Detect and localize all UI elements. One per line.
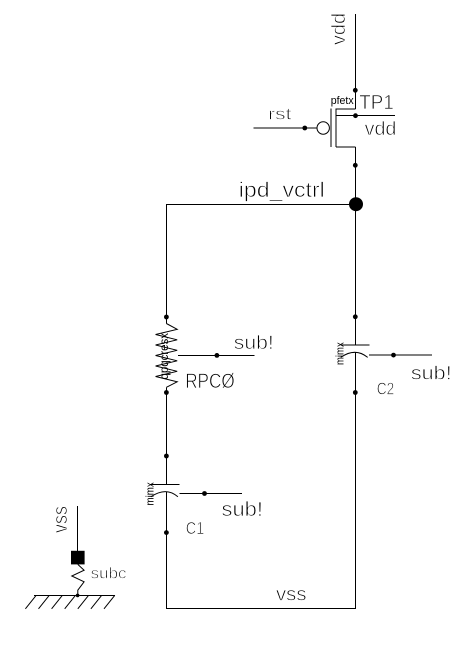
wire right rail lower <box>355 352 357 609</box>
svg-text:C1: C1 <box>186 518 205 538</box>
svg-text:mimx: mimx <box>335 342 347 365</box>
capacitor C1 <box>145 454 205 538</box>
svg-text:sub!: sub! <box>222 499 264 521</box>
svg-text:subc: subc <box>91 565 127 582</box>
wire rst (gate) <box>254 127 317 129</box>
substrate contact subc <box>71 551 127 597</box>
wire vss bottom rail <box>166 608 356 610</box>
ground (hatched) <box>25 595 114 609</box>
wire left rail lower <box>166 492 168 609</box>
transistor TP1 <box>302 88 393 168</box>
capacitor C2 <box>335 314 395 398</box>
net sub! label (resistor) <box>234 332 274 354</box>
svg-text:mimx: mimx <box>145 482 157 506</box>
net vss label (bottom) <box>276 583 307 605</box>
wire C2 tap sub! <box>369 354 432 356</box>
svg-text:TP1: TP1 <box>359 92 394 114</box>
svg-text:vdd: vdd <box>365 118 397 140</box>
net vdd label (top) <box>329 13 350 45</box>
svg-text:rst: rst <box>268 105 292 124</box>
wire bulk to vdd <box>336 115 395 117</box>
net sub! label (C1) <box>222 499 264 521</box>
svg-text:pfetx: pfetx <box>331 95 354 107</box>
svg-text:RPCØ: RPCØ <box>185 370 235 393</box>
net rst label <box>268 105 292 124</box>
svg-text:C2: C2 <box>377 378 395 398</box>
svg-text:sub!: sub! <box>411 363 452 385</box>
resistor RPC0 <box>156 315 235 395</box>
wire left rail middle <box>166 387 168 484</box>
svg-text:vdd: vdd <box>329 13 350 45</box>
svg-text:qpqcresx: qpqcresx <box>157 333 171 380</box>
wire resistor tap sub! <box>178 355 254 357</box>
svg-text:vss: vss <box>276 583 307 605</box>
svg-text:ipd_vctrl: ipd_vctrl <box>239 178 325 202</box>
wire left rail upper <box>166 204 168 324</box>
wire source down to node <box>354 147 356 204</box>
wire vdd vertical <box>354 14 356 109</box>
wire C1 tap sub! <box>179 493 242 495</box>
node ipd_vctrl <box>349 197 363 211</box>
net vdd label (bulk) <box>365 118 397 140</box>
svg-text:vss: vss <box>50 506 72 533</box>
net vss label (left, rotated) <box>50 506 72 533</box>
wire ipd_vctrl horizontal <box>166 204 356 206</box>
net sub! label (C2) <box>411 363 452 385</box>
wire vss to subc <box>77 506 79 551</box>
wire right rail upper (node to C2) <box>354 204 356 345</box>
svg-text:sub!: sub! <box>234 332 274 354</box>
